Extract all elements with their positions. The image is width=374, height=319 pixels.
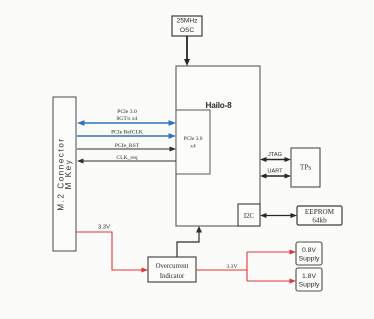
svg-text:CLK_req: CLK_req bbox=[116, 155, 137, 161]
svg-text:0.8V: 0.8V bbox=[302, 247, 316, 254]
wire CLK_req bbox=[77, 155, 176, 164]
svg-text:64kb: 64kb bbox=[312, 216, 327, 224]
svg-text:I2C: I2C bbox=[244, 213, 255, 220]
svg-text:x4: x4 bbox=[190, 144, 196, 150]
svg-text:PCIe_RST: PCIe_RST bbox=[115, 143, 140, 149]
svg-text:PCIe 3.0: PCIe 3.0 bbox=[117, 109, 137, 115]
IC U1 Hailo-8 bbox=[176, 66, 260, 226]
wire OSC1 to Hailo-8 clock input bbox=[184, 36, 190, 66]
wire PCIe_RST bbox=[77, 143, 176, 152]
block TPs test points bbox=[291, 148, 320, 187]
bus PCIe 3.0 8GT/s x4 bbox=[77, 109, 176, 126]
svg-text:OSC: OSC bbox=[180, 27, 195, 34]
svg-text:PCIe RefCLK: PCIe RefCLK bbox=[111, 128, 143, 135]
svg-text:Supply: Supply bbox=[299, 256, 320, 263]
svg-text:PCIe 3.0: PCIe 3.0 bbox=[184, 136, 203, 142]
svg-text:JTAG: JTAG bbox=[268, 152, 282, 158]
regulator 0.8V supply bbox=[296, 242, 322, 265]
connector J1 M.2 Connector M Key bbox=[53, 97, 76, 251]
svg-text:M Key: M Key bbox=[64, 159, 73, 190]
svg-text:1.8V: 1.8V bbox=[302, 273, 316, 280]
memory EEPROM 64kb bbox=[297, 206, 342, 225]
wire 3.3V from overcurrent indicator to supplies bbox=[196, 250, 296, 284]
block I2C interface bbox=[238, 204, 260, 226]
svg-text:EEPROM: EEPROM bbox=[305, 208, 335, 216]
wire overcurrent indicator to Hailo-8 power good bbox=[177, 226, 202, 257]
svg-text:Supply: Supply bbox=[299, 282, 320, 289]
regulator 1.8V supply bbox=[296, 268, 322, 291]
oscillator OSC1 25MHz bbox=[172, 16, 202, 36]
svg-text:TPs: TPs bbox=[300, 164, 311, 172]
svg-text:3.3V: 3.3V bbox=[98, 225, 110, 231]
wire UART bbox=[260, 169, 291, 179]
block overcurrent indicator bbox=[148, 257, 196, 282]
svg-text:Indicator: Indicator bbox=[160, 273, 185, 280]
wire PCIe RefCLK bbox=[77, 128, 176, 139]
svg-text:Overcurrent: Overcurrent bbox=[156, 263, 189, 270]
svg-text:8GT/s x4: 8GT/s x4 bbox=[117, 116, 138, 122]
svg-text:Hailo-8: Hailo-8 bbox=[206, 101, 233, 110]
wire 3.3V from M.2 connector to overcurrent indicator bbox=[76, 225, 148, 273]
block PCIe 3.0 x4 interface inside U1 bbox=[176, 110, 210, 174]
svg-text:UART: UART bbox=[267, 169, 283, 175]
svg-text:3.3V: 3.3V bbox=[226, 264, 237, 270]
svg-text:25MHz: 25MHz bbox=[177, 17, 198, 24]
wire I2C bus to EEPROM bbox=[260, 213, 297, 218]
wire JTAG bbox=[260, 152, 291, 162]
